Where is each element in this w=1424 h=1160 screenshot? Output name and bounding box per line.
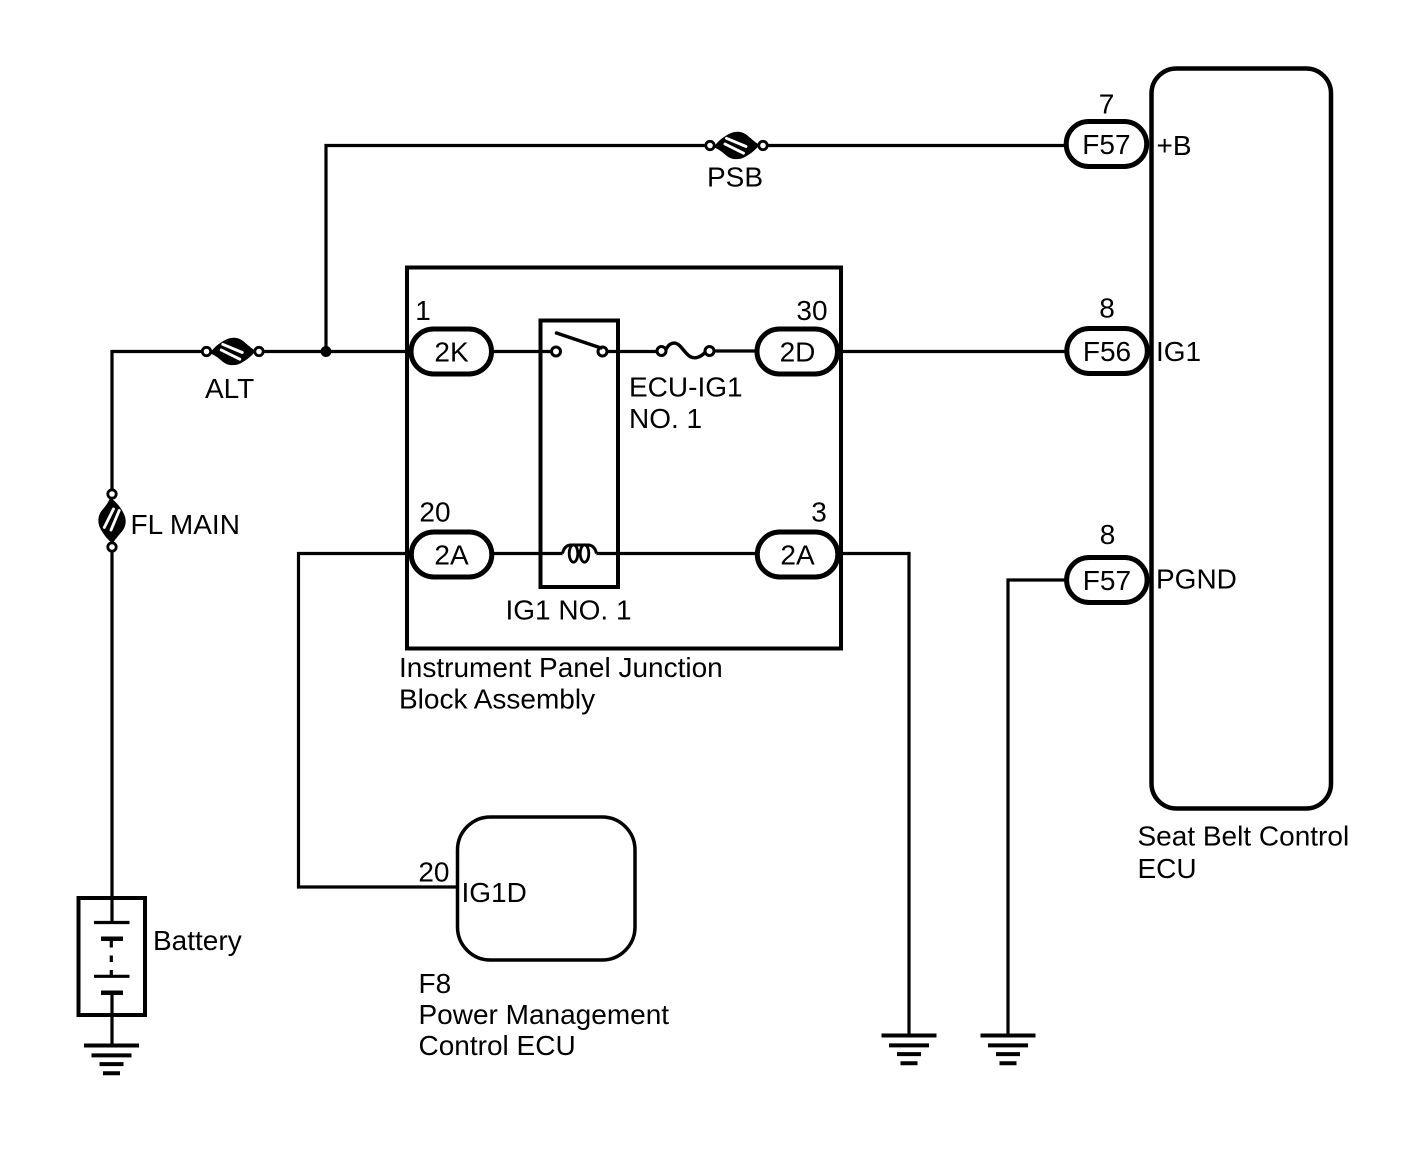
wire: FL MAIN to battery [110,552,113,922]
svg-text:8: 8 [1099,293,1115,324]
svg-text:2A: 2A [780,540,815,571]
connector F56 (IG1) [1067,329,1148,374]
battery [79,898,146,1015]
ground: battery ground [84,1046,139,1074]
wire: fuse to 2D [715,349,757,352]
svg-text:20: 20 [418,857,449,888]
svg-text:2D: 2D [780,337,816,368]
svg-text:F56: F56 [1083,336,1131,367]
connector 2D [757,329,838,374]
Seat Belt Control ECU box [1152,69,1332,809]
Instrument Panel Junction Block Assembly box [407,268,841,649]
svg-text:F57: F57 [1082,129,1130,160]
wire: PSB to connector F57 pin 7 [768,144,1067,147]
wire: battery negative to ground [110,994,113,1044]
wire: 2A pin20 to F8 IG1D [299,554,458,888]
connector 2A (pin 20) [411,532,492,577]
fusible link FL MAIN (vertical) [98,490,125,551]
ground: junction block ground [882,1036,937,1064]
wire: 2D to F56 [840,350,1067,353]
svg-text:Power Management: Power Management [419,999,670,1030]
fusible link PSB [706,132,767,159]
wire: 2K to relay contact [494,350,556,353]
svg-text:7: 7 [1099,89,1115,120]
svg-text:PGND: PGND [1156,564,1237,595]
connector F57 (PGND) [1067,558,1148,603]
svg-text:Instrument Panel Junction: Instrument Panel Junction [399,652,723,683]
svg-text:F57: F57 [1083,565,1131,596]
svg-text:Block Assembly: Block Assembly [399,684,595,715]
svg-text:2K: 2K [434,337,469,368]
relay switch blade [557,333,602,348]
fuse ECU-IG1 NO. 1 [657,343,714,358]
svg-text:IG1 NO. 1: IG1 NO. 1 [506,595,632,626]
svg-text:ECU: ECU [1138,853,1197,884]
svg-text:PSB: PSB [707,162,763,193]
relay contact right terminal [598,347,607,356]
svg-text:ALT: ALT [205,373,254,404]
wire: PGND to ground [1008,580,1067,1034]
wire: ALT link to 2K [264,350,409,353]
svg-text:8: 8 [1100,519,1116,550]
relay IG1 NO. 1 box [541,321,619,588]
svg-text:1: 1 [415,295,431,326]
svg-text:FL MAIN: FL MAIN [131,509,240,540]
svg-text:Battery: Battery [153,925,242,956]
connector 2A (pin 3) [757,532,838,577]
relay coil [494,545,755,562]
node: junction dot on main wire [321,346,332,357]
svg-text:30: 30 [796,295,827,326]
wire: riser from junction dot to +B feed [326,146,706,352]
ground: PGND ground [981,1036,1036,1064]
connector F57 (+B) [1066,122,1147,167]
wire: 2A pin3 to ground [840,554,909,1034]
wire: battery positive feed, main horizontal run to junction block [112,352,202,490]
svg-text:IG1: IG1 [1156,336,1201,367]
connector 2K [411,329,492,374]
svg-text:NO. 1: NO. 1 [629,403,702,434]
svg-text:20: 20 [419,497,450,528]
svg-text:+B: +B [1157,130,1192,161]
F8 Power Management Control ECU box [458,817,636,960]
svg-text:Seat Belt Control: Seat Belt Control [1138,821,1350,852]
svg-text:F8: F8 [419,968,452,999]
svg-text:ECU-IG1: ECU-IG1 [629,372,743,403]
svg-text:IG1D: IG1D [462,877,527,908]
svg-text:3: 3 [811,497,827,528]
wire: relay to fuse [608,350,662,353]
svg-text:2A: 2A [434,540,469,571]
fusible link ALT [202,338,263,365]
svg-text:Control ECU: Control ECU [419,1030,576,1061]
relay contact left terminal [552,347,561,356]
